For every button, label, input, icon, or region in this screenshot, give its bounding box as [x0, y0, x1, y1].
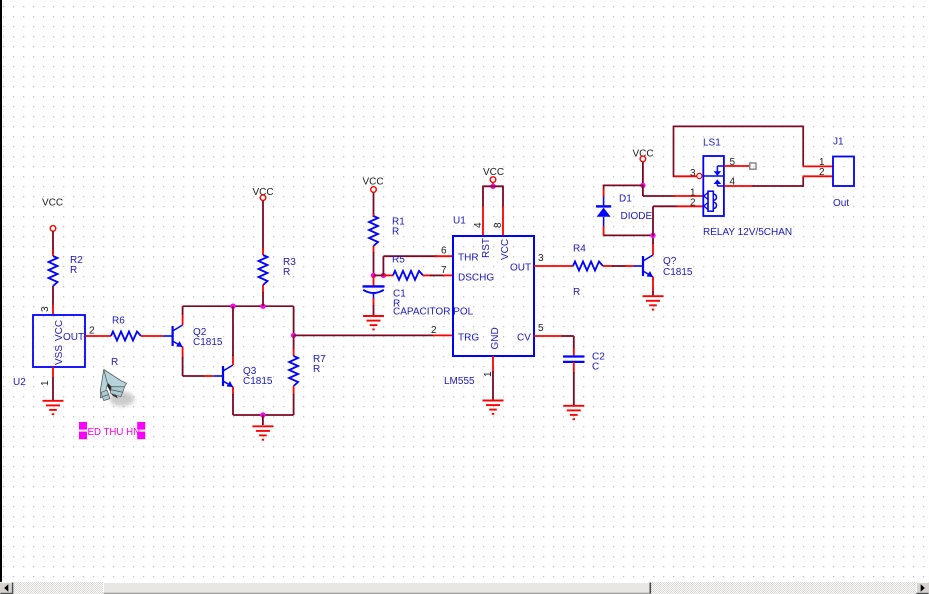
pin number 5 (U1): [538, 323, 544, 334]
capacitor C1 (polarized): [363, 275, 474, 317]
no-ERC marker relay pin 3: [697, 173, 702, 178]
wire U2 pin 2 to R6: [85, 335, 111, 337]
pin number 6 (U1): [441, 246, 447, 257]
power VCC port (U1): [483, 167, 504, 182]
svg-text:R: R: [392, 227, 399, 238]
svg-text:U2: U2: [13, 377, 26, 388]
junction bottom rail/ground: [260, 412, 265, 417]
wire U2 pin 1 to ground: [52, 367, 54, 400]
svg-text:4: 4: [473, 222, 484, 228]
wire junction to ground: [262, 415, 264, 425]
regulator U2: [13, 315, 85, 388]
pin number 2 (U2): [89, 326, 95, 337]
wire Q3 emitter to bottom rail: [232, 387, 234, 415]
svg-text:2: 2: [690, 198, 696, 209]
svg-text:5: 5: [538, 323, 544, 334]
svg-text:VSS: VSS: [54, 345, 65, 365]
pin number 1 (J1): [819, 157, 825, 168]
resistor R1: [369, 216, 405, 246]
wire R2 to U2 pin 3: [52, 286, 54, 315]
pin number 2 (LS1): [690, 198, 696, 209]
resistor R5: [383, 255, 423, 280]
wire Q3 collector to rail: [232, 306, 234, 365]
wire Q2 collector to node rail: [182, 306, 184, 325]
svg-text:LS1: LS1: [703, 138, 721, 149]
svg-text:2: 2: [819, 167, 825, 178]
wire Q? collector to node: [652, 235, 654, 255]
ground (C2): [563, 406, 584, 419]
wire R6 to Q2 base: [141, 335, 163, 337]
junction node rail/Q3 collector: [230, 304, 235, 309]
svg-text:3: 3: [538, 253, 544, 264]
wire R7 to bottom rail: [293, 386, 295, 415]
pin number 3 (U1): [538, 253, 544, 264]
svg-text:R: R: [283, 267, 290, 278]
svg-text:CV: CV: [517, 333, 531, 344]
svg-text:R4: R4: [573, 244, 586, 255]
svg-text:3: 3: [690, 168, 696, 179]
capacitor C2: [563, 352, 605, 373]
pin number 1 (U2): [40, 380, 51, 386]
resistor R4: [573, 244, 603, 299]
pin number 1 (LS1): [690, 188, 696, 199]
svg-text:R: R: [313, 364, 320, 375]
pin number 2 (J1): [819, 167, 825, 178]
wire relay pin 4 to J1 pin 2: [724, 176, 833, 187]
ground (U1): [483, 401, 504, 414]
wire C1 to ground: [373, 298, 375, 316]
wire R1 to node: [373, 246, 375, 275]
ground (Q?): [643, 296, 664, 309]
svg-text:OUT: OUT: [63, 332, 84, 343]
wire R3 to rail: [262, 285, 264, 306]
window left border: [0, 0, 2, 582]
svg-text:C1815: C1815: [243, 376, 273, 387]
pin number 1 (U1): [483, 371, 494, 377]
svg-text:U1: U1: [453, 216, 466, 227]
pin number 3 (U2): [40, 306, 51, 312]
svg-text:6: 6: [441, 246, 447, 257]
power VCC port (R1): [363, 177, 384, 193]
diode D1: [596, 194, 653, 227]
pin number 3 (LS1): [690, 168, 696, 179]
wire D1 bottom to node: [604, 226, 653, 236]
wire Q2 emitter to Q3 base: [183, 347, 214, 376]
resistor R6: [111, 316, 141, 369]
no-connect marker (pin 5): [750, 163, 756, 169]
svg-text:GND: GND: [490, 327, 501, 349]
svg-text:Q?: Q?: [663, 256, 677, 267]
wire GND pin to ground: [492, 356, 494, 400]
wire C2 to ground: [573, 362, 575, 406]
svg-text:R5: R5: [392, 255, 405, 266]
relay LS1: [703, 138, 792, 239]
wire VCC node to relay pin 1: [643, 185, 703, 196]
wire node to R7: [293, 335, 295, 356]
wire TRG net: [294, 334, 453, 336]
svg-text:1: 1: [40, 380, 51, 386]
svg-text:C1815: C1815: [663, 267, 693, 278]
power VCC port (left): [42, 198, 63, 232]
selected text LED THU HN: [79, 422, 145, 439]
svg-text:2: 2: [89, 326, 95, 337]
junction VCC bracket: [490, 182, 495, 189]
pin number 2 (U1): [431, 325, 437, 336]
power VCC port (R3): [253, 187, 274, 201]
svg-text:THR: THR: [458, 253, 479, 264]
wire bottom rail: [233, 414, 294, 416]
svg-text:7: 7: [441, 265, 447, 276]
svg-text:DSCHG: DSCHG: [458, 273, 494, 284]
svg-text:ED THU HN: ED THU HN: [88, 427, 141, 438]
ground (U2): [43, 401, 64, 414]
wire VCC to R1: [373, 192, 375, 217]
svg-text:R6: R6: [112, 316, 125, 327]
svg-text:3: 3: [40, 306, 51, 312]
wire R4 to Q? base: [603, 265, 634, 267]
pin number 4 (U1): [473, 222, 484, 228]
svg-text:C: C: [592, 362, 599, 373]
junction R7/TRG node: [291, 333, 296, 338]
wire VCC to R3: [262, 201, 264, 256]
horizontal scrollbar: [0, 582, 929, 594]
svg-text:RELAY 12V/5CHAN: RELAY 12V/5CHAN: [703, 227, 792, 238]
svg-text:2: 2: [431, 325, 437, 336]
wire node to relay pin 2: [653, 206, 703, 236]
junction THR/R5 node: [381, 273, 386, 278]
junction VCC/D1/relay node: [640, 183, 645, 188]
pin number 8 (U1): [493, 222, 504, 228]
transistor Q2: [163, 325, 223, 348]
svg-text:VCC: VCC: [500, 239, 511, 260]
svg-text:OUT: OUT: [510, 263, 531, 274]
svg-text:R: R: [70, 265, 77, 276]
wire VCC to node: [642, 162, 644, 186]
wire node link: [374, 274, 384, 276]
wire Q? emitter to ground: [652, 277, 654, 296]
svg-text:D1: D1: [619, 194, 632, 205]
transistor Q?: [634, 255, 693, 278]
wire R5 to DSCHG pin: [423, 274, 453, 276]
svg-text:VCC: VCC: [363, 177, 384, 188]
svg-text:R: R: [573, 287, 580, 298]
resistor R3: [259, 255, 297, 285]
wire VCC to R2: [52, 231, 54, 256]
svg-text:LM555: LM555: [444, 376, 475, 387]
resistor R2: [49, 255, 84, 286]
power VCC port (D1): [633, 149, 654, 162]
junction R1/C1 node: [371, 273, 376, 278]
wire node to D1 top: [604, 185, 643, 198]
svg-text:R: R: [111, 357, 118, 368]
svg-text:J1: J1: [833, 137, 844, 148]
mouse cursor: [100, 370, 134, 407]
wire VCC bracket to pins 4 and 8: [483, 186, 503, 237]
wire relay pin 5 to no-connect: [724, 165, 750, 167]
svg-text:TRG: TRG: [458, 333, 479, 344]
svg-text:DIODE: DIODE: [621, 211, 653, 222]
junction D1/Q?/relay pin2 node: [650, 233, 655, 238]
ground (Q2/Q3 rail): [252, 426, 273, 439]
wire THR net: [383, 256, 453, 275]
wire CV pin to C2: [534, 336, 574, 356]
connector J1: [833, 137, 854, 210]
wire relay pin 3 loop to J1 pin 1: [673, 126, 833, 177]
wire top rail: [183, 305, 294, 307]
wire OUT pin to R4: [534, 265, 573, 267]
svg-text:VCC: VCC: [42, 198, 63, 209]
pin number 7 (U1): [441, 265, 447, 276]
transistor Q3: [214, 365, 273, 387]
pin number 5 (LS1): [730, 157, 736, 168]
timer U1 LM555: [444, 216, 534, 388]
junction node rail/R3: [260, 304, 265, 309]
svg-text:CAPACITOR POL: CAPACITOR POL: [393, 307, 474, 318]
svg-text:8: 8: [493, 222, 504, 228]
resistor R7: [289, 354, 326, 386]
pin number 4 (LS1): [730, 177, 736, 188]
wire rail down to R7 node: [293, 306, 295, 335]
svg-text:C1815: C1815: [193, 337, 223, 348]
svg-text:RST: RST: [481, 238, 492, 258]
svg-text:Out: Out: [833, 198, 849, 209]
ground (C1): [363, 316, 384, 329]
